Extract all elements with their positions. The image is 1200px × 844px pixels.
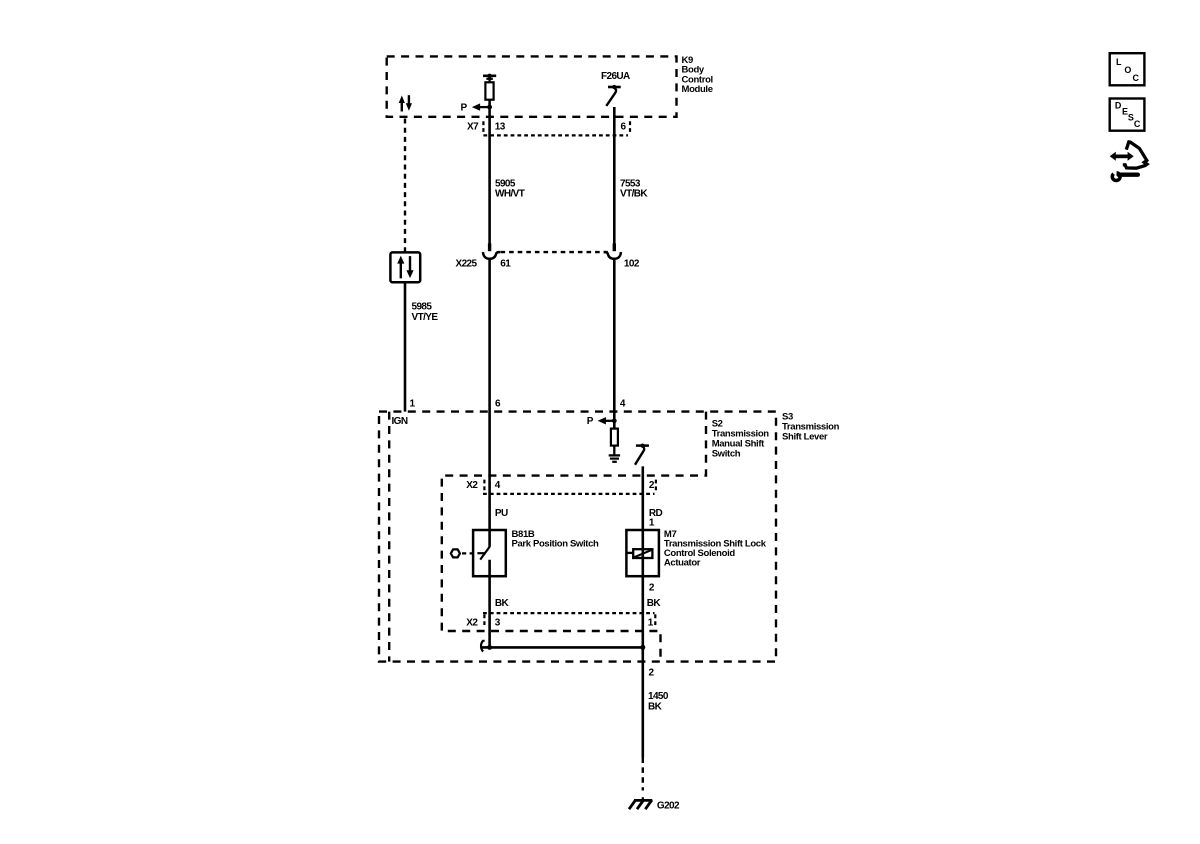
svg-text:Actuator: Actuator <box>664 557 701 568</box>
B81B label text <box>512 529 600 549</box>
dashed wire to ground <box>642 758 644 791</box>
M7 solenoid element <box>626 549 652 558</box>
svg-text:C: C <box>1134 119 1141 129</box>
wire label 7553 VT/BK <box>620 178 648 199</box>
ground jumper wire <box>482 646 643 649</box>
svg-text:IGN: IGN <box>392 416 408 427</box>
wire 5905 lower segment <box>488 259 491 547</box>
junction dot left <box>487 645 492 650</box>
svg-text:PU: PU <box>495 508 508 519</box>
wire 5905 upper segment <box>488 100 491 244</box>
svg-text:L: L <box>1116 57 1122 67</box>
B81B switch blade <box>477 547 489 560</box>
inline connector X225 pin 102 <box>604 243 621 258</box>
M7 label text <box>664 529 767 568</box>
svg-text:Park Position Switch: Park Position Switch <box>512 538 600 549</box>
dashed mechanical link <box>462 552 477 554</box>
svg-text:X2: X2 <box>466 618 478 629</box>
svg-text:F26UA: F26UA <box>601 71 630 82</box>
svg-text:P: P <box>461 103 468 114</box>
svg-text:13: 13 <box>495 122 506 133</box>
svg-text:VT/BK: VT/BK <box>620 189 648 200</box>
component S3 Transmission Shift Lever dashed box <box>379 412 776 662</box>
K9 internal up/down gear arrows <box>399 95 412 111</box>
dashed control wire from K9 to gear selector <box>404 119 406 253</box>
svg-text:Shift Lever: Shift Lever <box>782 432 828 443</box>
component S2 Transmission Manual Shift Switch dashed outline <box>389 412 706 662</box>
svg-text:X2: X2 <box>466 480 478 491</box>
wire label 5905 WH/VT <box>495 178 525 199</box>
diagnostic icon <box>1110 142 1147 181</box>
svg-text:X7: X7 <box>467 122 479 133</box>
svg-text:Switch: Switch <box>712 449 741 460</box>
wire 7553 lower segment <box>613 259 616 429</box>
svg-text:O: O <box>1124 65 1131 75</box>
wire 1450 BK <box>641 647 644 757</box>
svg-text:102: 102 <box>624 258 640 269</box>
hexagon actuator marker <box>451 549 460 557</box>
gear selector up/down symbol box <box>390 252 420 282</box>
junction dot right <box>640 645 645 650</box>
S3 label text <box>782 411 840 442</box>
svg-text:1450: 1450 <box>648 691 669 702</box>
module K9 Body Control Module dashed box <box>387 56 677 116</box>
splice hook <box>481 641 485 652</box>
svg-text:BK: BK <box>648 701 663 712</box>
switch B81B box <box>473 530 506 576</box>
DESC icon box <box>1110 99 1145 131</box>
junction node with P takeout arrow (middle) <box>587 416 617 427</box>
wire label 1450 BK <box>648 691 669 712</box>
junction node on wire 1 <box>487 105 492 110</box>
svg-text:5905: 5905 <box>495 178 516 189</box>
svg-text:5985: 5985 <box>412 302 433 313</box>
wire below B81B <box>488 560 491 648</box>
svg-text:G202: G202 <box>657 800 680 811</box>
resistor inside S2 <box>611 429 618 456</box>
wire from switch to M7 and ground splice <box>641 466 644 647</box>
fuse F26UA <box>601 71 630 106</box>
svg-text:BK: BK <box>647 598 662 609</box>
svg-text:WH/VT: WH/VT <box>495 189 525 200</box>
connector X7 <box>467 121 630 135</box>
connector X2 lower row <box>466 613 655 628</box>
svg-text:X225: X225 <box>456 258 478 269</box>
svg-text:7553: 7553 <box>620 178 641 189</box>
connector X225 labels <box>456 258 640 269</box>
svg-text:C: C <box>1132 73 1139 83</box>
wire 5985 <box>404 282 407 411</box>
resistor inside K9 on wire 1 <box>483 74 496 100</box>
dashed link between X225 halves <box>501 251 608 253</box>
svg-text:P: P <box>587 416 594 427</box>
wire 7553 upper segment <box>613 107 616 244</box>
K9 label text <box>682 55 713 95</box>
ground G202 <box>629 797 680 811</box>
svg-text:BK: BK <box>495 598 510 609</box>
svg-text:D: D <box>1115 101 1122 111</box>
solenoid M7 box <box>626 530 659 576</box>
ground symbol inside S2 <box>609 455 620 461</box>
svg-text:Module: Module <box>682 84 713 95</box>
svg-text:61: 61 <box>500 258 511 269</box>
inline connector X225 pin 61 <box>483 243 500 258</box>
connector X2 upper row <box>466 480 656 494</box>
LOC icon box <box>1110 53 1145 85</box>
P takeout arrow at top <box>461 103 490 114</box>
S2 label text <box>712 419 770 460</box>
wire label 5985 VT/YE <box>412 302 439 323</box>
switch blade inside S2 <box>635 444 649 465</box>
svg-text:VT/YE: VT/YE <box>412 312 439 323</box>
